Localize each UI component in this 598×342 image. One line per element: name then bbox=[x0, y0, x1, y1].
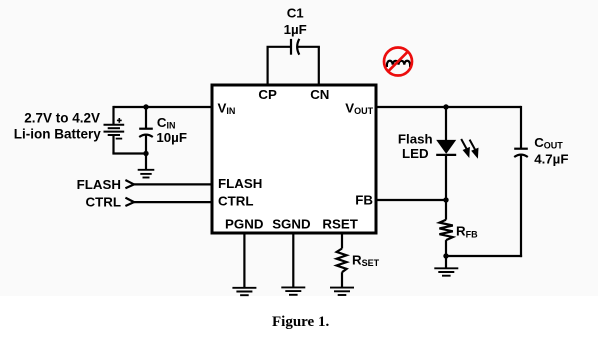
svg-text:CTRL: CTRL bbox=[86, 194, 121, 209]
wire LED cathode vertical bbox=[445, 155, 447, 200]
wire PGND vertical bbox=[243, 233, 245, 288]
wire RSET vertical bottom bbox=[341, 272, 343, 287]
svg-text:CTRL: CTRL bbox=[218, 194, 253, 209]
capacitor CIN label bbox=[156, 115, 187, 145]
IC U1 body bbox=[212, 85, 376, 233]
svg-text:LED: LED bbox=[402, 146, 429, 161]
capacitor C1 bbox=[291, 39, 299, 55]
pin label CTRL bbox=[218, 194, 253, 209]
wire VIN net horizontal bbox=[114, 106, 213, 108]
wire FLASH bbox=[134, 183, 212, 185]
CTRL input label bbox=[86, 194, 121, 209]
battery label bbox=[14, 111, 101, 142]
wire FB horizontal bbox=[376, 199, 446, 201]
wire COUT bottom horizontal bbox=[446, 255, 522, 257]
svg-text:Figure 1.: Figure 1. bbox=[272, 314, 329, 330]
wire CN vertical bbox=[318, 47, 320, 85]
wire battery bottom horizontal bbox=[112, 152, 146, 154]
FLASH input arrow bbox=[125, 180, 134, 188]
ground below PGND bbox=[232, 288, 256, 295]
CTRL input arrow bbox=[125, 198, 134, 206]
svg-text:CP: CP bbox=[258, 87, 277, 102]
wire LED anode vertical bbox=[445, 107, 447, 141]
node battery-CIN bottom junction dot bbox=[143, 151, 148, 156]
svg-text:RSET: RSET bbox=[322, 216, 357, 231]
capacitor COUT label bbox=[534, 135, 568, 167]
battery B1 bbox=[104, 118, 125, 139]
wire VOUT horizontal bbox=[376, 106, 521, 108]
pin label SGND bbox=[272, 216, 311, 231]
capacitor COUT bbox=[514, 149, 528, 257]
node VIN junction dot bbox=[143, 104, 148, 109]
svg-text:2.7V to 4.2V: 2.7V to 4.2V bbox=[24, 111, 100, 126]
node VOUT junction dot bbox=[443, 104, 448, 109]
svg-text:FLASH: FLASH bbox=[77, 177, 121, 192]
pin label PGND bbox=[225, 216, 264, 231]
svg-text:FB: FB bbox=[355, 193, 373, 208]
svg-text:4.7µF: 4.7µF bbox=[534, 152, 568, 167]
resistor RSET bbox=[337, 249, 347, 273]
svg-text:SGND: SGND bbox=[272, 216, 311, 231]
capacitor C1 label bbox=[284, 6, 307, 37]
LED D1 flash bbox=[436, 140, 456, 155]
figure caption bbox=[272, 314, 329, 330]
pin label CN bbox=[310, 87, 329, 102]
wire SGND vertical bbox=[292, 233, 294, 287]
LED label bbox=[398, 131, 433, 161]
no-inductor icon bbox=[384, 48, 412, 76]
svg-text:Li-ion Battery: Li-ion Battery bbox=[14, 127, 101, 142]
node RFB-COUT junction dot bbox=[443, 253, 448, 258]
svg-text:10µF: 10µF bbox=[156, 130, 187, 145]
wire RSET vertical top bbox=[341, 233, 343, 249]
svg-text:C1: C1 bbox=[287, 6, 305, 21]
wire COUT vertical top bbox=[520, 106, 522, 148]
svg-text:FLASH: FLASH bbox=[218, 176, 262, 191]
wire CP vertical bbox=[267, 47, 269, 85]
resistor RFB label bbox=[456, 224, 478, 240]
svg-text:CN: CN bbox=[310, 87, 329, 102]
resistor RFB bbox=[439, 200, 452, 256]
ground below RSET bbox=[330, 288, 354, 295]
svg-text:1µF: 1µF bbox=[284, 22, 307, 37]
ground (small) below CIN bbox=[138, 170, 155, 178]
LED light bolt arrows bbox=[461, 139, 478, 159]
wire CTRL bbox=[134, 201, 212, 203]
wire battery bottom vertical bbox=[112, 135, 114, 154]
resistor RSET label bbox=[352, 253, 380, 269]
svg-text:Flash: Flash bbox=[398, 131, 433, 146]
node FB junction dot bbox=[443, 197, 448, 202]
ground below SGND bbox=[281, 287, 305, 294]
wire battery top vertical bbox=[112, 106, 114, 125]
pin label VIN bbox=[218, 100, 236, 116]
pin label CP bbox=[258, 87, 277, 102]
capacitor CIN bbox=[139, 107, 153, 170]
pin label RSET bbox=[322, 216, 357, 231]
pin label FB bbox=[355, 193, 373, 208]
svg-text:PGND: PGND bbox=[225, 216, 264, 231]
pin label VOUT bbox=[345, 100, 373, 116]
wire C1 top left segment bbox=[267, 46, 292, 48]
wire C1 top right segment bbox=[298, 46, 320, 48]
ground below RFB bbox=[434, 268, 458, 275]
FLASH input label bbox=[77, 177, 121, 192]
wire RFB ground vertical bbox=[445, 256, 447, 268]
pin label FLASH bbox=[218, 176, 262, 191]
